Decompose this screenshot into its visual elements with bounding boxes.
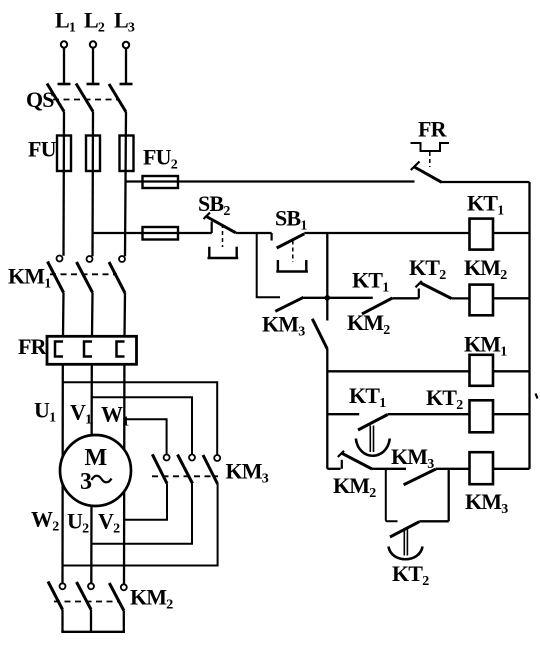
switch QS linkage dashed [53,99,119,101]
contact KT1 delayed blade [358,415,388,431]
svg-text:3: 3 [80,469,92,495]
contact KT2 delayed blade [390,522,419,537]
coil KM1 [470,355,494,386]
wire phase2 KM1 to FR [91,293,94,337]
svg-text:KT1: KT1 [349,383,386,411]
svg-text:L2: L2 [84,8,105,36]
wire phase1 FR to motor and KM2 [61,364,64,583]
contactor KM1 pole 3 [109,256,125,293]
svg-text:KM3: KM3 [391,444,434,472]
thermal relay FR heater 3 [117,342,125,357]
svg-text:KM2: KM2 [333,473,376,501]
wire KM3 left column to V2 [124,484,167,520]
svg-text:KM3: KM3 [226,459,269,487]
wire phase1 KM1 to FR [62,293,65,337]
contact KT2 rung2 NC [416,281,452,299]
svg-text:U2: U2 [67,509,89,537]
switch QS pole 3 [109,84,133,112]
contactor KM3 pole 1 [152,454,169,483]
coil KT1 [470,219,494,250]
contact KM3 parallel blade [275,297,303,311]
wire rung1 SB2 to SB1 [236,232,272,234]
svg-text:KM3: KM3 [465,489,508,517]
contactor KM2 pole 1 [48,582,66,610]
svg-text:KM2: KM2 [130,585,173,613]
svg-text:KT2: KT2 [426,385,463,413]
svg-text:FR: FR [418,116,448,141]
pushbutton SB2 dashed actuator link [222,224,224,247]
wire bypass left leg [386,469,398,522]
wire rung4 left [327,413,359,415]
wire tap V1 to KM3 middle column [92,397,192,455]
wire rung5 middle [372,468,406,470]
wire bypass bottom right [419,520,448,522]
fuse FU2 upper [143,176,179,188]
wire left rail to bottom [326,349,328,469]
wire phase2 FR to motor and KM2 [90,364,93,583]
wire phase3 QS to fuse [125,112,126,256]
wire KM2 pole 1 down [61,610,63,632]
wire rung1 from phase2 [92,232,212,234]
wire rung2 middle [392,297,418,299]
terminal L3 [123,42,129,84]
wire tap W1 to KM3 left column [124,419,166,455]
coil KM3 [470,452,494,484]
svg-text:V2: V2 [98,509,120,537]
contact KM3 vertical blade [312,319,327,349]
contactor KM2 linkage dashed [54,601,118,603]
pushbutton SB1 actuator [276,260,308,272]
wire shorting bus [61,631,125,633]
contact KT2 delay plunger [404,530,407,556]
wire rung5 to coil KM3 [436,468,470,470]
thermal relay FR heater 1 [55,342,63,357]
contactor KM3 pole 2 [178,455,196,484]
coil KM2 [470,285,494,316]
svg-text:SB2: SB2 [198,191,230,219]
svg-text:L3: L3 [114,8,135,36]
wire coil KM2 to right rail [493,297,530,299]
svg-text:KM3: KM3 [262,312,305,340]
wire left rail below junction [326,298,328,321]
svg-text:KM2: KM2 [464,255,507,283]
wire right rail [528,182,530,469]
contactor KM2 pole 3 [109,583,127,611]
wire KM2 pole 2 down [90,610,92,632]
svg-text:KM1: KM1 [8,264,51,292]
contact KT1 delay cup [356,439,390,456]
wire rung1 SB1 to coil KT1 [304,232,470,234]
wire coil KT1 to right rail [493,232,530,234]
scan artifact mark [536,394,538,399]
svg-text:KT2: KT2 [409,255,446,283]
wire tap U1 to KM3 right column [63,382,217,455]
svg-text:KT1: KT1 [467,191,504,219]
wire coil KM1 to right rail [493,370,530,372]
wire bypass right leg [448,469,450,522]
fuse FU pole 3 [120,136,134,172]
fuse FU2 lower [143,227,179,240]
svg-text:L1: L1 [55,8,76,36]
wire top control rail [125,180,529,183]
wire SB1 parallel branch left [257,233,280,297]
wire phase2 QS to fuse [91,112,94,257]
svg-text:V1: V1 [70,400,92,428]
contactor KM1 pole 2 [77,256,93,293]
pushbutton SB2 actuator [208,247,239,258]
contact KT1 delay plunger [370,426,373,453]
contactor KM2 pole 2 [77,582,95,610]
node junction A [325,295,331,301]
contactor KM3 pole 3 [203,455,220,484]
contact KM2 rung2 blade [362,298,392,314]
svg-text:U1: U1 [34,398,56,426]
pushbutton SB2 contact [204,213,236,234]
contactor KM3 linkage dashed [152,475,218,477]
svg-text:KM2: KM2 [347,310,390,338]
motor M circle [60,435,131,506]
coil KT2 [470,400,494,432]
thermal relay FR contact dashed link [429,152,431,167]
wire phase3 KM1 to FR [123,293,126,337]
wire KM3 contact to junction [304,297,328,299]
svg-text:FU2: FU2 [143,145,178,173]
wire rung3 [327,370,469,372]
wire phase3 FR to motor and KM2 [123,364,126,584]
wire rung1 down to junction [326,233,328,298]
wire rung4 right [388,413,470,415]
contactor KM1 linkage dashed [50,273,117,275]
wire KM2 pole 3 down [123,611,125,632]
switch QS pole 2 [76,84,100,112]
wire KM3 right column to W2 [63,484,218,566]
thermal relay FR contact element [411,143,450,151]
wire coil KM3 to right rail [493,468,530,470]
switch QS pole 1 [47,84,71,112]
fuse FU pole 2 [86,136,100,172]
wire rung2 to coil KM2 [452,297,470,299]
contactor KM1 pole 1 [48,256,64,293]
wire coil KT2 to right rail [493,413,530,415]
wire KM3 middle column to U2 [91,484,192,544]
fuse FU pole 1 [57,136,71,172]
contact KM2 NC rung5 [338,451,372,469]
svg-text:KT2: KT2 [392,561,429,589]
thermal relay FR box [47,336,137,364]
svg-text:W2: W2 [31,507,59,535]
svg-text:FR: FR [18,334,48,359]
svg-text:M: M [85,445,107,471]
wire rung2 junction to contact [327,297,373,299]
pushbutton SB1 dashed actuator link [292,241,294,263]
terminal L2 [90,41,96,84]
contact KT2 delay cup [389,547,423,560]
wire phase1 QS to fuse [62,112,65,256]
svg-text:KT1: KT1 [352,268,389,296]
svg-text:FU: FU [28,137,57,162]
terminal L1 [61,41,67,84]
wire rung5 left [327,468,340,470]
pushbutton SB1 contact blade [271,233,273,241]
thermal relay FR contact blade [411,162,442,183]
svg-text:SB1: SB1 [275,206,307,234]
thermal relay FR heater 2 [84,342,92,357]
contact KM3 rung5 blade [404,469,436,485]
